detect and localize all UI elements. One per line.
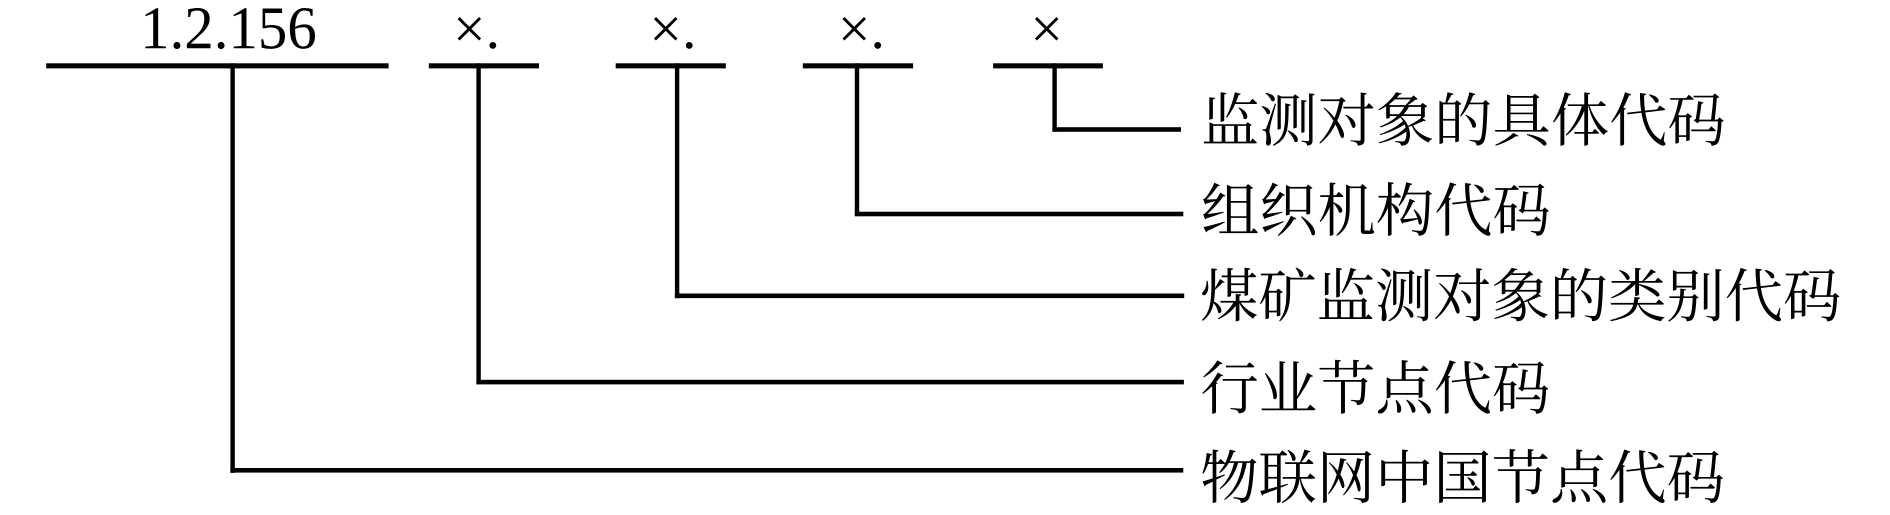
wire leader-4 xyxy=(476,380,1184,385)
label industry-node-code : 行业节点代码 xyxy=(1202,360,1548,414)
node code-prefix 1.2.156 xyxy=(145,8,315,49)
label iot-china-node-code : 物联网中国节点代码 xyxy=(1202,449,1723,503)
wire underline-5 xyxy=(993,63,1103,68)
wire vertical-3 xyxy=(675,63,679,298)
wire leader-3 xyxy=(675,294,1184,299)
node placeholder x-4 xyxy=(1035,17,1059,41)
wire leader-1 xyxy=(1052,127,1181,132)
wire underline-2 xyxy=(429,63,539,68)
label coalmine-category-code : 煤矿监测对象的类别代码 xyxy=(1202,268,1839,322)
wire underline-1 xyxy=(46,63,388,68)
wire leader-5 xyxy=(230,468,1183,473)
wire underline-4 xyxy=(803,63,913,68)
wire leader-2 xyxy=(855,212,1184,217)
label specific-object-code : 监测对象的具体代码 xyxy=(1204,92,1724,146)
wire vertical-4 xyxy=(855,63,859,216)
label organization-code : 组织机构代码 xyxy=(1203,182,1549,236)
node placeholder x-3 xyxy=(842,17,881,49)
node placeholder x-1 xyxy=(458,17,497,49)
wire vertical-1 xyxy=(230,63,234,473)
wire vertical-5 xyxy=(1052,63,1056,131)
node placeholder x-2 xyxy=(654,17,693,49)
wire underline-3 xyxy=(616,63,726,68)
wire vertical-2 xyxy=(476,63,480,384)
